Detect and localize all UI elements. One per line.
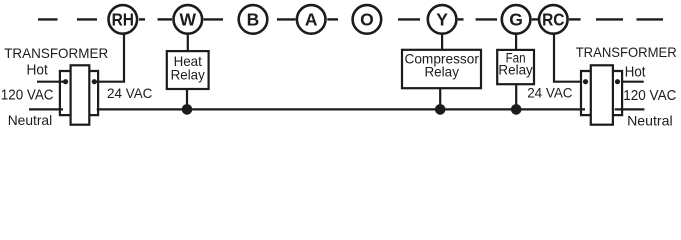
svg-text:RC: RC <box>542 9 565 29</box>
svg-text:W: W <box>180 9 197 29</box>
svg-text:Relay: Relay <box>498 63 533 78</box>
wire 120VAC neutral lead right <box>615 108 645 110</box>
transformer T2 core <box>591 65 613 124</box>
svg-text:TRANSFORMER: TRANSFORMER <box>4 45 108 61</box>
wire dash left of G <box>476 18 497 20</box>
junction dot Fan Relay on bus <box>511 104 522 115</box>
relay K2 Compressor Relay box <box>402 50 481 88</box>
wire Compressor Relay to 24V common bus <box>439 88 441 110</box>
wire RC drop to right transformer secondary <box>554 34 582 82</box>
relay K1 Heat Relay box <box>167 51 209 89</box>
wire dash 2 <box>77 18 97 20</box>
terminal O <box>353 5 382 34</box>
svg-text:G: G <box>509 9 523 29</box>
wire dash 14 (top dashed line far right) <box>637 18 664 20</box>
terminal G <box>502 5 531 34</box>
wire dash left of A <box>277 18 296 20</box>
junction dot T1 hot tap <box>63 79 68 84</box>
wire tick right of RC <box>569 18 581 20</box>
transformer T1 primary winding <box>60 71 71 115</box>
wire RH drop to transformer secondary <box>93 34 124 82</box>
svg-text:120 VAC: 120 VAC <box>1 88 54 104</box>
wire 120VAC hot lead right <box>622 81 644 83</box>
svg-text:Relay: Relay <box>424 63 459 79</box>
relay K3 Fan Relay box <box>497 50 534 84</box>
terminal B <box>239 5 268 34</box>
transformer T1 secondary winding <box>89 71 98 115</box>
transformer T2 secondary winding <box>581 71 591 115</box>
svg-text:RH: RH <box>112 9 134 29</box>
wire dash 13 <box>596 18 623 20</box>
svg-text:24 VAC: 24 VAC <box>527 84 572 100</box>
svg-text:24 VAC: 24 VAC <box>107 85 152 101</box>
wire Fan Relay to 24V common bus <box>515 84 517 110</box>
wire tick right of Y <box>458 18 464 20</box>
wire W drop to Heat Relay <box>187 34 189 52</box>
svg-text:120 VAC: 120 VAC <box>623 88 676 104</box>
wire dash right of W <box>204 18 223 20</box>
svg-text:Hot: Hot <box>625 64 646 80</box>
junction dot T2 hot tap <box>615 79 620 84</box>
wire Y drop to Compressor Relay <box>441 34 443 51</box>
wire dash left of W <box>158 18 173 20</box>
transformer T2 primary winding <box>613 71 622 115</box>
transformer T1 core <box>71 65 90 124</box>
junction dot Heat Relay on bus <box>182 104 193 115</box>
svg-text:B: B <box>247 9 260 29</box>
wire tick right of RH <box>139 18 145 20</box>
junction dot T1 24V tap <box>92 79 97 84</box>
svg-text:Neutral: Neutral <box>627 112 673 128</box>
svg-text:Neutral: Neutral <box>8 112 53 128</box>
wire dash left of Y <box>398 18 420 20</box>
wire G drop to Fan Relay <box>515 34 517 51</box>
wire Heat Relay to 24V common bus <box>186 89 188 110</box>
terminal RC <box>539 5 568 34</box>
wire 24V common bus <box>97 108 585 110</box>
svg-text:Hot: Hot <box>27 63 48 79</box>
junction dot Compressor Relay on bus <box>435 104 446 115</box>
svg-text:Y: Y <box>436 9 448 29</box>
svg-text:TRANSFORMER: TRANSFORMER <box>576 44 677 60</box>
wire 120VAC neutral lead left <box>29 108 63 110</box>
terminal Y <box>428 5 457 34</box>
terminal W <box>174 5 203 34</box>
wire 120VAC hot lead left <box>37 81 66 83</box>
svg-text:Relay: Relay <box>171 66 205 82</box>
svg-text:A: A <box>305 9 318 29</box>
svg-text:O: O <box>360 9 374 29</box>
wire tick right of A <box>327 18 338 20</box>
wire link G to RC <box>532 18 538 20</box>
terminal RH <box>109 5 138 34</box>
terminal A <box>297 5 326 34</box>
junction dot T2 24V tap <box>583 79 588 84</box>
wire dash 1 (top dashed line far left) <box>38 18 58 20</box>
